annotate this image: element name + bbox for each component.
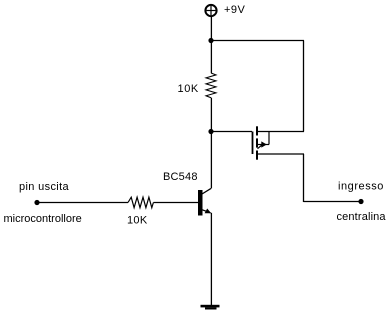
channel segment top bbox=[256, 126, 258, 135]
wire: right rail down to MOSFET source bbox=[303, 41, 305, 132]
resistor R2 10K (horizontal zigzag) bbox=[128, 197, 153, 208]
svg-text:centralina: centralina bbox=[337, 211, 387, 223]
svg-text:pin uscita: pin uscita bbox=[19, 181, 70, 193]
wire: node A down to resistor R1 bbox=[210, 41, 212, 74]
wire: node B down to transistor collector bbox=[210, 132, 212, 189]
body lead with arrow bbox=[258, 144, 269, 146]
input terminal dot bbox=[34, 200, 39, 205]
channel segment middle bbox=[256, 138, 258, 147]
svg-text:microcontrollore: microcontrollore bbox=[4, 213, 82, 225]
node A (junction dot) bbox=[208, 38, 213, 43]
wire: resistor R2 to transistor base bbox=[153, 202, 198, 204]
svg-text:+9V: +9V bbox=[224, 4, 246, 16]
MOSFET Q2 (P-channel) bbox=[253, 126, 270, 159]
collector diagonal bbox=[202, 188, 211, 194]
node B (junction dot) bbox=[208, 129, 213, 134]
svg-text:10K: 10K bbox=[178, 83, 199, 95]
svg-text:ingresso: ingresso bbox=[338, 181, 384, 193]
wire: to output terminal bbox=[304, 201, 362, 203]
svg-text:10K: 10K bbox=[127, 215, 148, 227]
emitter arrow head bbox=[205, 209, 212, 214]
channel segment bottom bbox=[256, 151, 258, 160]
resistor R1 10K (vertical zigzag) bbox=[206, 73, 216, 98]
gate bar bbox=[252, 132, 254, 155]
wire: +9V to node A bbox=[210, 17, 212, 41]
wire: node A to right rail bbox=[211, 40, 304, 42]
body arrow head bbox=[261, 141, 267, 147]
emitter diagonal bbox=[202, 210, 210, 213]
wire: MOSFET source lead to right rail bbox=[258, 131, 304, 133]
wire: MOSFET drain lead bbox=[258, 153, 304, 155]
base bar bbox=[198, 190, 203, 216]
wire: R1 to node B bbox=[210, 98, 212, 132]
wire: emitter down to ground bbox=[210, 213, 212, 305]
output terminal dot bbox=[358, 199, 363, 204]
svg-text:BC548: BC548 bbox=[163, 171, 198, 183]
wire: drain down bbox=[303, 154, 305, 202]
wire: input terminal to resistor R2 bbox=[37, 202, 128, 204]
ground symbol bbox=[201, 305, 220, 310]
+9V power supply symbol bbox=[205, 5, 216, 16]
wire: node B to MOSFET gate bbox=[211, 131, 252, 133]
transistor Q1 BC548 bbox=[198, 188, 211, 215]
